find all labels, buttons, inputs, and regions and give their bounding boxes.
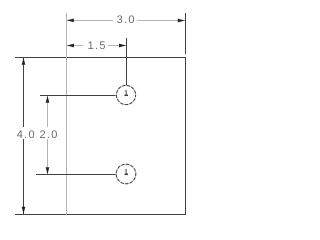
- arrowhead 4.0 bottom: [22, 207, 26, 214]
- svg-text:2.0: 2.0: [39, 129, 58, 141]
- plate bottom edge (with left extension for 4.0 dim): [15, 214, 186, 216]
- hole 1 vertical centerline / extension for 1.5 dim: [126, 38, 128, 86]
- extension line right for 3.0 dim: [185, 13, 187, 54]
- arrowhead 4.0 top: [22, 58, 26, 65]
- extension line at hole 2 center (y=174): [36, 174, 116, 176]
- hole 1 label "1": [125, 90, 129, 95]
- hole 1 (balloon circle, segmented): [116, 85, 135, 104]
- hole 2 (balloon circle, segmented): [116, 164, 136, 184]
- arrowhead 3.0 right: [178, 19, 185, 23]
- plate right edge: [185, 57, 187, 215]
- arrowhead 1.5 left: [67, 44, 74, 48]
- svg-text:3.0: 3.0: [117, 14, 136, 26]
- 4.0 dimension line (vertical, dark): [23, 58, 25, 127]
- arrowhead 2.0 bottom: [46, 167, 50, 174]
- hole 2 label "1": [125, 169, 129, 174]
- svg-text:4.0: 4.0: [17, 129, 36, 141]
- extension line at hole 1 center (y=95): [40, 95, 116, 97]
- plate left edge (light, merged with extension line for 3.0/1.5 dims): [66, 13, 68, 215]
- 3.0 dimension line (horizontal, light): [67, 20, 113, 22]
- 1.5 dimension line (horizontal, light): [67, 45, 83, 47]
- 2.0 dimension line (vertical, light): [47, 96, 49, 127]
- arrowhead 2.0 top: [46, 96, 50, 103]
- plate top edge (with left extension for 4.0 dim): [15, 57, 186, 59]
- svg-text:1.5: 1.5: [88, 40, 107, 52]
- arrowhead 3.0 left: [67, 19, 74, 23]
- arrowhead 1.5 right: [119, 44, 126, 48]
